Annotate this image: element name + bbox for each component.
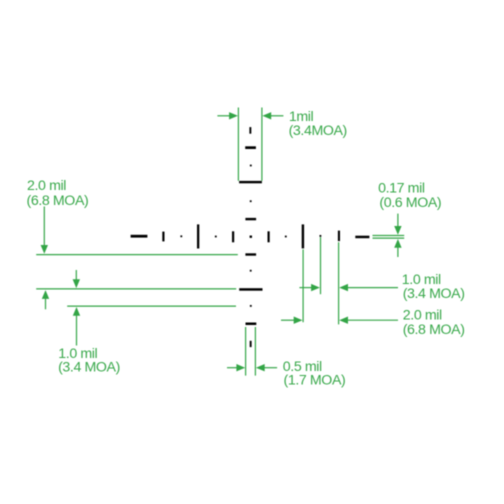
svg-text:(3.4 MOA): (3.4 MOA) [58, 360, 120, 376]
svg-text:2.0 mil: 2.0 mil [27, 178, 66, 194]
svg-text:2.0 mil: 2.0 mil [403, 308, 442, 324]
svg-text:(3.4MOA): (3.4MOA) [289, 123, 347, 139]
svg-text:(6.8 MOA): (6.8 MOA) [27, 193, 89, 209]
svg-text:(0.6 MOA): (0.6 MOA) [379, 195, 441, 211]
svg-text:(1.7 MOA): (1.7 MOA) [284, 373, 346, 389]
svg-text:(3.4 MOA): (3.4 MOA) [403, 286, 465, 302]
svg-text:(6.8 MOA): (6.8 MOA) [403, 322, 465, 338]
